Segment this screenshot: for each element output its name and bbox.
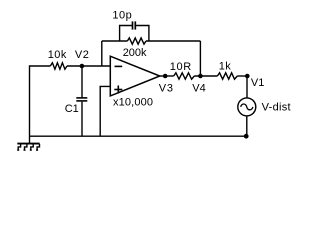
resistor R 10k xyxy=(50,63,67,69)
capacitor C1 xyxy=(76,98,87,101)
wire bottom rail xyxy=(30,135,247,137)
wire C1 top xyxy=(81,66,83,97)
svg-text:200k: 200k xyxy=(123,47,147,59)
resistor 1k xyxy=(217,73,237,79)
node V2 dot xyxy=(80,64,85,69)
wire source bottom xyxy=(246,116,248,136)
wire plus input branch xyxy=(100,86,110,136)
wire cap branch right xyxy=(136,26,149,42)
source V-dist circle xyxy=(238,98,256,116)
svg-text:V2: V2 xyxy=(75,49,89,61)
node V1 dot xyxy=(245,74,250,79)
wire input left segment xyxy=(30,65,51,67)
svg-text:10R: 10R xyxy=(170,61,192,73)
wire left vertical to ground xyxy=(29,65,31,143)
wire feedback top left segment xyxy=(102,40,128,42)
wire 10k to op-amp minus input xyxy=(67,65,110,67)
op-amp U1 triangle xyxy=(110,56,160,96)
svg-text:10k: 10k xyxy=(48,49,67,61)
junction dot bottom right xyxy=(244,134,249,139)
svg-text:V-dist: V-dist xyxy=(262,101,291,113)
wire 200k to right corner xyxy=(146,40,200,42)
svg-text:1k: 1k xyxy=(219,61,232,73)
ground xyxy=(17,144,40,151)
source sine wave xyxy=(241,104,253,110)
svg-text:V3: V3 xyxy=(159,82,174,94)
svg-text:x10,000: x10,000 xyxy=(113,97,153,109)
capacitor 10p xyxy=(133,21,136,29)
wire V1 down to source xyxy=(246,76,248,98)
wire op-amp output to 10R xyxy=(160,75,174,77)
wire 10R to 1k xyxy=(194,75,217,77)
node V3 dot xyxy=(163,74,168,79)
svg-text:10p: 10p xyxy=(112,10,132,22)
node V4 dot xyxy=(198,74,203,79)
wire C1 bottom xyxy=(81,102,83,137)
wire feedback left vertical xyxy=(101,41,103,66)
svg-text:V1: V1 xyxy=(251,77,264,89)
op-amp minus sign xyxy=(115,65,123,67)
svg-text:C1: C1 xyxy=(65,103,79,115)
wire cap branch left xyxy=(120,26,132,42)
wire feedback right vertical to V4 xyxy=(199,41,201,76)
resistor 200k xyxy=(127,38,146,44)
op-amp plus sign xyxy=(114,86,122,94)
resistor 10R xyxy=(174,73,195,79)
svg-text:V4: V4 xyxy=(192,82,205,94)
wire 1k to V1 xyxy=(237,75,247,77)
